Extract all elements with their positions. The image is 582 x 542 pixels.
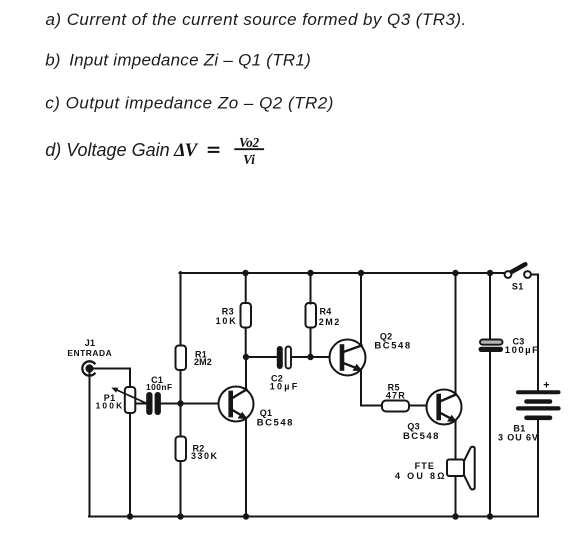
wire: C2 to R4 node <box>291 356 311 358</box>
wire: Q1 emitter to ground rail <box>245 418 247 517</box>
svg-text:c) Output impedance Zo – Q2 (T: c) Output impedance Zo – Q2 (TR2) <box>45 94 334 113</box>
capacitor C2 <box>270 346 300 392</box>
svg-text:Q3: Q3 <box>407 422 419 432</box>
svg-text:2M2: 2M2 <box>194 357 212 367</box>
wire: J1 to ground rail <box>89 373 91 517</box>
svg-text:Q1: Q1 <box>260 408 272 418</box>
transistor Q3 <box>403 390 462 443</box>
wire: S1 to battery <box>531 275 538 392</box>
svg-text:100K: 100K <box>96 401 125 411</box>
transistor Q1 <box>219 387 295 429</box>
wire: C2 node down to Q1 collector <box>245 357 247 390</box>
switch S1 <box>505 264 531 291</box>
svg-text:100nF: 100nF <box>146 382 173 392</box>
wire: R2 to ground rail <box>180 461 182 517</box>
svg-text:100µF: 100µF <box>505 345 540 356</box>
node: rail/C3 <box>487 270 493 276</box>
jack J1 <box>67 338 112 376</box>
node: rail/R3 <box>242 270 248 276</box>
svg-text:4 OU 8Ω: 4 OU 8Ω <box>395 471 447 481</box>
svg-text:Input impedance Zi – Q1 (TR1): Input impedance Zi – Q1 (TR1) <box>69 51 311 70</box>
svg-text:R4: R4 <box>320 307 332 317</box>
svg-text:Vi: Vi <box>243 152 255 167</box>
speaker FTE <box>395 447 475 490</box>
resistor R4 <box>306 303 317 328</box>
wire: C3 to ground rail <box>489 352 491 517</box>
svg-text:BC548: BC548 <box>403 431 440 442</box>
node: Q1 collector / C2 <box>243 354 249 360</box>
svg-text:10µF: 10µF <box>270 382 300 392</box>
capacitor C3 <box>479 337 540 357</box>
battery B1 <box>518 392 559 418</box>
node: speaker/ground <box>452 513 458 519</box>
node: C2/R4/Q2-base <box>307 354 313 360</box>
fraction Vo2/Vi <box>234 135 264 167</box>
svg-text:3 OU 6V: 3 OU 6V <box>498 433 539 443</box>
svg-text:+: + <box>543 380 550 392</box>
wire: Q2 collector to rail <box>360 273 362 346</box>
wire: R5 to Q3 base <box>409 405 427 407</box>
svg-text:ΔV: ΔV <box>173 141 199 161</box>
wire: C1 to base node <box>161 403 181 405</box>
node: C3/ground <box>487 513 493 519</box>
wire: rail to R4 <box>310 273 312 304</box>
wire: Q2 emitter down to R5 level <box>361 369 383 406</box>
svg-text:BC548: BC548 <box>374 341 411 352</box>
resistor R2 <box>176 437 187 462</box>
wire: speaker to ground rail <box>455 476 457 517</box>
svg-text:d) Voltage Gain: d) Voltage Gain <box>45 140 169 160</box>
node: R1/R2/C1/Q1-base junction <box>177 400 183 406</box>
svg-text:2M2: 2M2 <box>319 317 341 327</box>
node: R2/ground <box>177 513 183 519</box>
wire: Q3 emitter down to speaker <box>455 418 457 460</box>
svg-text:b): b) <box>45 51 60 70</box>
wire: left column rail to R1 <box>180 272 182 346</box>
transistor Q2 <box>330 332 412 376</box>
wire: top supply rail <box>180 272 505 274</box>
svg-text:FTE: FTE <box>415 461 435 471</box>
node: rail/Q2 collector <box>358 270 364 276</box>
svg-text:S1: S1 <box>512 282 524 292</box>
resistor R3 <box>241 303 252 328</box>
equals sign <box>208 148 220 152</box>
wire: R1 to base node <box>180 370 182 404</box>
svg-text:ENTRADA: ENTRADA <box>67 348 112 358</box>
wire: Q3 collector to rail <box>455 273 457 395</box>
wire: base node to Q1 base <box>181 403 221 405</box>
capacitor C1 <box>146 375 173 415</box>
wire: J1 to P1 top <box>94 369 130 388</box>
svg-text:47R: 47R <box>386 391 406 401</box>
svg-text:330K: 330K <box>191 451 219 461</box>
svg-text:Vo2: Vo2 <box>239 135 260 150</box>
svg-text:J1: J1 <box>85 338 96 348</box>
wire: rail to C3 <box>489 273 491 340</box>
wire: P1 wiper to C1 <box>136 403 147 405</box>
node: rail/R4 <box>307 270 313 276</box>
potentiometer P1 <box>96 387 146 413</box>
node: P1/ground <box>127 513 133 519</box>
wire: C2 node to C2 <box>246 356 277 358</box>
svg-text:a) Current of the current sour: a) Current of the current source formed … <box>46 10 467 29</box>
node: rail/Q3 collector <box>452 270 458 276</box>
wire: rail to R3 <box>245 273 247 304</box>
node: Q1 emitter/ground <box>243 513 249 519</box>
wire: P1 to ground rail <box>129 413 131 517</box>
wire: base node to R2 <box>180 404 182 438</box>
svg-text:BC548: BC548 <box>257 418 294 429</box>
wire: R3 to C2 node <box>245 328 247 358</box>
wire: R4 branch down <box>310 328 312 358</box>
wire: ground bottom rail <box>89 516 538 518</box>
wire: R4 node to Q2 base <box>311 356 331 358</box>
resistor R5 <box>382 401 409 412</box>
wire: battery to ground rail <box>537 418 539 517</box>
resistor R1 <box>176 346 187 371</box>
svg-text:10K: 10K <box>216 316 238 326</box>
svg-text:R3: R3 <box>222 307 234 317</box>
